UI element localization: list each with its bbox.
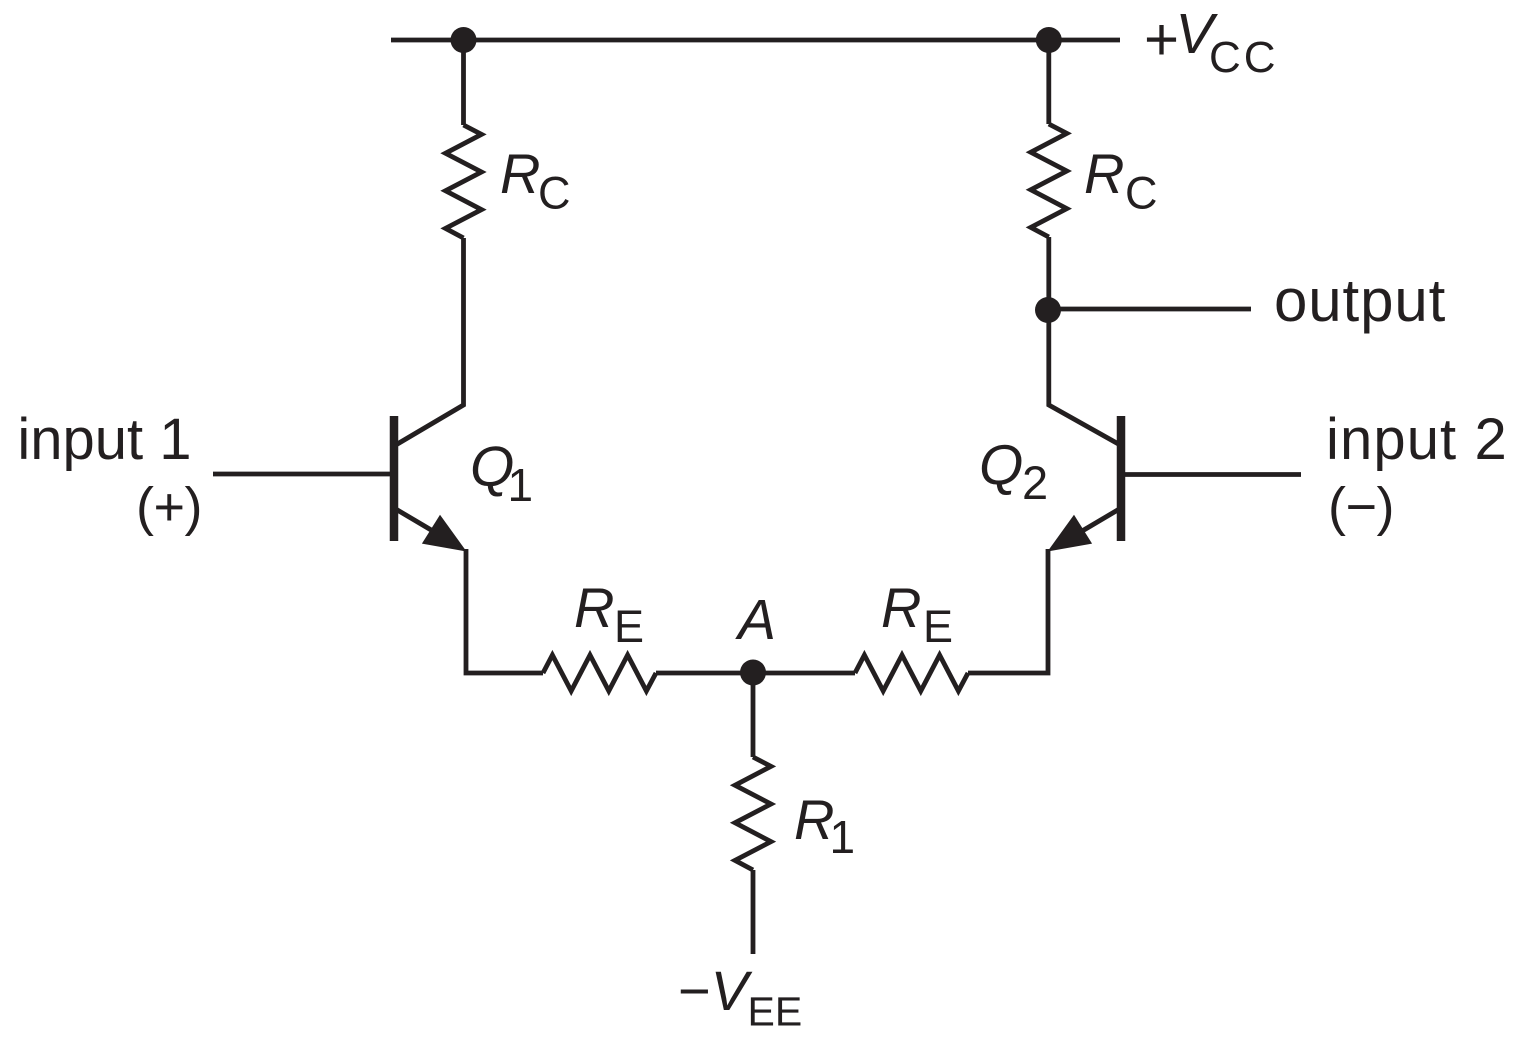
svg-text:−V: −V — [678, 959, 753, 1022]
svg-text:+: + — [1144, 6, 1179, 73]
svg-text:(+): (+) — [136, 477, 202, 537]
svg-text:output: output — [1274, 267, 1446, 334]
svg-text:E: E — [614, 601, 644, 652]
svg-text:input 2: input 2 — [1326, 407, 1508, 472]
svg-text:1: 1 — [830, 811, 856, 863]
svg-text:2: 2 — [1022, 456, 1048, 509]
svg-text:R: R — [881, 576, 921, 639]
svg-text:1: 1 — [508, 459, 534, 511]
svg-text:input 1: input 1 — [17, 407, 191, 472]
svg-text:R: R — [1084, 142, 1124, 205]
svg-text:EE: EE — [748, 989, 803, 1035]
svg-text:C: C — [1125, 168, 1158, 219]
svg-text:R: R — [500, 142, 540, 205]
svg-text:R: R — [574, 576, 614, 639]
svg-text:Q: Q — [979, 434, 1023, 498]
svg-text:A: A — [735, 588, 776, 652]
svg-text:C: C — [538, 168, 571, 219]
svg-text:E: E — [923, 601, 953, 652]
svg-text:CC: CC — [1209, 33, 1279, 82]
svg-text:(−): (−) — [1328, 477, 1394, 537]
svg-text:R: R — [794, 788, 834, 851]
